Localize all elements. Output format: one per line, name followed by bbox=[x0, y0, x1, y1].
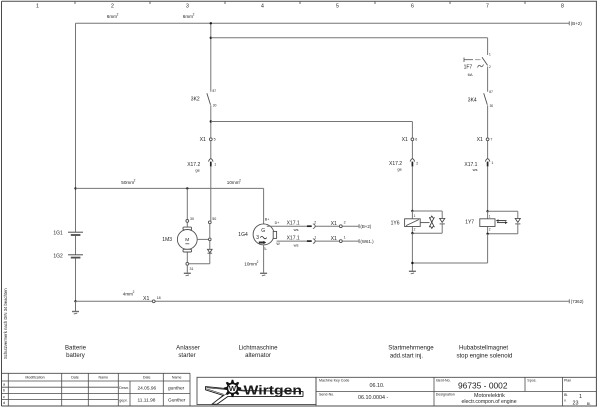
svg-text:X1: X1 bbox=[477, 137, 483, 143]
label 50mm2 bbox=[121, 178, 135, 185]
svg-text:50mm: 50mm bbox=[121, 180, 134, 185]
logo box bbox=[197, 377, 316, 404]
wire: right rail through 3K4 down to X17.1 bbox=[487, 67, 489, 212]
svg-text:2: 2 bbox=[117, 12, 119, 16]
svg-text:X17.1: X17.1 bbox=[287, 221, 300, 227]
connector X1 pin 1 bbox=[331, 235, 346, 242]
ground alternator bbox=[260, 273, 267, 276]
label 6mm2 bbox=[107, 12, 119, 19]
svg-text:X1: X1 bbox=[143, 296, 149, 302]
net label (7362) bbox=[571, 299, 584, 304]
svg-text:Startmehrmenge: Startmehrmenge bbox=[388, 345, 434, 352]
svg-text:5: 5 bbox=[336, 4, 339, 10]
svg-text:Spos.: Spos. bbox=[527, 378, 536, 382]
svg-text:alternator: alternator bbox=[245, 352, 271, 359]
svg-text:Name: Name bbox=[172, 376, 182, 380]
connector X17.1 pin 1 (W) bbox=[287, 235, 317, 247]
svg-text:2: 2 bbox=[257, 260, 259, 264]
svg-text:Wirtgen: Wirtgen bbox=[244, 382, 303, 397]
svg-text:3K2: 3K2 bbox=[191, 96, 200, 102]
svg-text:1G2: 1G2 bbox=[53, 254, 63, 260]
svg-text:2: 2 bbox=[111, 4, 114, 10]
svg-text:2: 2 bbox=[133, 290, 135, 294]
connector X1 pin 6 bbox=[402, 137, 418, 143]
svg-text:1: 1 bbox=[489, 53, 491, 57]
wire: bottom ground bus bbox=[76, 299, 570, 303]
svg-text:Date: Date bbox=[143, 376, 151, 380]
fuse 1F7 6A bbox=[464, 53, 491, 78]
wire: starter solenoid branch term 50 down to diode bbox=[189, 221, 210, 264]
svg-text:Hubabstellmagnet: Hubabstellmagnet bbox=[459, 345, 508, 352]
connector X1 pin 5 bbox=[200, 137, 216, 143]
svg-text:06.10.0004 -: 06.10.0004 - bbox=[358, 395, 388, 401]
wire: left battery vertical bbox=[75, 23, 77, 301]
svg-text:2: 2 bbox=[134, 178, 136, 182]
node battery bus junction bbox=[74, 187, 76, 189]
node battery minus junction bbox=[74, 300, 76, 302]
svg-text:ge: ge bbox=[397, 167, 402, 172]
svg-text:96735 - 0002: 96735 - 0002 bbox=[458, 380, 508, 390]
svg-text:1: 1 bbox=[491, 161, 493, 165]
svg-text:3: 3 bbox=[186, 4, 189, 10]
svg-text:18: 18 bbox=[157, 296, 161, 300]
svg-text:2: 2 bbox=[344, 220, 346, 224]
svg-text:Schutzvermerk nach DIN 34 beac: Schutzvermerk nach DIN 34 beachten bbox=[3, 288, 8, 359]
wire: mid branch to X1:6 bbox=[211, 122, 413, 212]
svg-text:W: W bbox=[229, 384, 237, 393]
svg-text:D+: D+ bbox=[275, 221, 280, 225]
net label (B+2) bbox=[360, 224, 371, 229]
svg-text:7: 7 bbox=[490, 138, 492, 142]
svg-text:1: 1 bbox=[214, 163, 216, 167]
svg-text:Batterie: Batterie bbox=[65, 345, 87, 352]
svg-text:1Y7: 1Y7 bbox=[465, 220, 474, 226]
svg-text:Date: Date bbox=[71, 376, 79, 380]
label 4mm2 bbox=[123, 290, 135, 296]
svg-text:1G4: 1G4 bbox=[238, 232, 248, 238]
svg-text:Bl.: Bl. bbox=[564, 393, 568, 397]
node motor link bbox=[209, 238, 212, 241]
svg-text:30: 30 bbox=[490, 104, 494, 108]
svg-text:1: 1 bbox=[489, 215, 491, 219]
svg-text:5: 5 bbox=[214, 138, 216, 142]
svg-text:23: 23 bbox=[573, 400, 579, 406]
svg-text:10mm: 10mm bbox=[227, 180, 240, 185]
ground starter bbox=[184, 265, 191, 276]
svg-text:Machine Key Code: Machine Key Code bbox=[319, 378, 349, 382]
svg-text:Designation: Designation bbox=[436, 393, 455, 397]
label 10mm2 bbox=[227, 178, 241, 185]
ground solenoids bbox=[409, 271, 416, 274]
wire: solenoid ground rail bbox=[412, 233, 487, 271]
svg-text:(W61.): (W61.) bbox=[360, 239, 374, 244]
svg-text:(7362): (7362) bbox=[571, 299, 584, 304]
svg-text:24.05.96: 24.05.96 bbox=[138, 385, 157, 391]
svg-text:X1: X1 bbox=[402, 137, 408, 143]
ground battery bbox=[72, 301, 79, 314]
svg-text:30: 30 bbox=[190, 217, 194, 221]
svg-text:6: 6 bbox=[411, 4, 414, 10]
svg-text:31: 31 bbox=[190, 267, 194, 271]
node solenoid ground junction bbox=[411, 262, 413, 264]
svg-text:starter: starter bbox=[178, 352, 195, 359]
solenoid 1Y6 bbox=[391, 210, 445, 235]
svg-text:1M3: 1M3 bbox=[162, 237, 172, 243]
svg-text:X1: X1 bbox=[331, 236, 337, 242]
relay contact 3K2 bbox=[191, 89, 217, 107]
svg-text:30: 30 bbox=[213, 104, 217, 108]
svg-text:1: 1 bbox=[344, 235, 346, 239]
connector terminal 50 bbox=[208, 221, 211, 224]
svg-text:Anlasser: Anlasser bbox=[176, 345, 200, 352]
connector X17.2 pin 1 (ge) bbox=[187, 159, 216, 173]
svg-text:M: M bbox=[185, 237, 189, 243]
alternator 1G4 bbox=[238, 218, 280, 252]
svg-text:Drwn.: Drwn. bbox=[119, 386, 129, 390]
connector X17.1 pin 2 (D+) bbox=[287, 220, 317, 232]
svg-text:2: 2 bbox=[193, 12, 195, 16]
svg-text:1Y6: 1Y6 bbox=[391, 220, 400, 226]
svg-text:7: 7 bbox=[486, 4, 489, 10]
battery 1G2 bbox=[68, 255, 83, 258]
svg-text:Send-No.: Send-No. bbox=[319, 393, 334, 397]
svg-text:W: W bbox=[276, 242, 280, 246]
net label (B+2) top right bbox=[571, 21, 582, 26]
svg-text:stop engine solenoid: stop engine solenoid bbox=[456, 352, 512, 359]
svg-text:3: 3 bbox=[256, 235, 259, 241]
svg-text:4: 4 bbox=[261, 4, 264, 10]
svg-text:Plan: Plan bbox=[564, 378, 571, 382]
right title blocks bbox=[316, 377, 596, 406]
svg-text:X1: X1 bbox=[331, 221, 337, 227]
svg-text:Bl.: Bl. bbox=[587, 402, 591, 406]
svg-text:11.11.98: 11.11.98 bbox=[138, 397, 156, 403]
svg-text:B+: B+ bbox=[265, 218, 270, 222]
svg-text:battery: battery bbox=[66, 352, 86, 359]
connector X1 pin 7 bbox=[477, 137, 493, 143]
connector X17.2 pin 2 (ge) bbox=[389, 159, 418, 172]
svg-text:X1: X1 bbox=[200, 137, 206, 143]
svg-text:gepr.: gepr. bbox=[119, 398, 127, 402]
node starter branch bbox=[186, 187, 188, 189]
svg-text:6: 6 bbox=[415, 138, 417, 142]
wire: alternator ground bbox=[263, 245, 265, 273]
svg-text:Modification: Modification bbox=[25, 376, 44, 380]
svg-text:50: 50 bbox=[212, 217, 216, 221]
diode starter suppression bbox=[208, 249, 213, 253]
connector X17.1 pin 1 (ws) bbox=[464, 159, 493, 172]
svg-text:2: 2 bbox=[416, 162, 418, 166]
title block bbox=[2, 373, 191, 406]
svg-text:1F7: 1F7 bbox=[464, 64, 473, 70]
svg-text:1: 1 bbox=[36, 4, 39, 10]
svg-text:(B+2): (B+2) bbox=[360, 224, 371, 229]
solenoid 1Y7 bbox=[465, 210, 520, 235]
svg-text:06.10.: 06.10. bbox=[370, 383, 385, 389]
svg-text:87: 87 bbox=[489, 90, 493, 94]
svg-text:87: 87 bbox=[213, 89, 217, 93]
svg-text:b: b bbox=[3, 389, 5, 393]
starter motor 1M3 bbox=[162, 188, 197, 270]
wire: main 50mm2 bus to starter / alternator bbox=[76, 188, 264, 224]
svg-text:Lichtmaschine: Lichtmaschine bbox=[239, 345, 279, 352]
svg-text:X17.1: X17.1 bbox=[287, 235, 300, 241]
svg-text:1: 1 bbox=[314, 235, 316, 239]
svg-text:gunther: gunther bbox=[168, 385, 185, 391]
connector X1 pin 18 on ground bus bbox=[143, 296, 161, 302]
svg-text:8: 8 bbox=[561, 4, 564, 10]
svg-text:6A: 6A bbox=[468, 72, 473, 77]
svg-text:add.start inj.: add.start inj. bbox=[390, 352, 424, 359]
svg-text:(B+2): (B+2) bbox=[571, 21, 582, 26]
wire: W line to X1:1 bbox=[277, 239, 360, 243]
svg-text:G: G bbox=[261, 228, 265, 234]
relay contact 3K4 bbox=[468, 90, 494, 108]
battery 1G1 bbox=[68, 232, 83, 235]
node mid branch tap bbox=[210, 120, 212, 122]
svg-text:10mm: 10mm bbox=[244, 261, 257, 266]
svg-text:2: 2 bbox=[414, 227, 416, 231]
svg-text:Gunther: Gunther bbox=[168, 397, 186, 403]
svg-text:Ident-No.: Ident-No. bbox=[436, 378, 451, 382]
svg-text:1: 1 bbox=[414, 214, 416, 218]
svg-text:2: 2 bbox=[489, 65, 491, 69]
svg-text:ws: ws bbox=[294, 242, 299, 247]
net label (W61.) bbox=[360, 239, 374, 244]
node fuse branch tap bbox=[210, 37, 212, 39]
svg-text:v.: v. bbox=[564, 398, 567, 402]
svg-text:c: c bbox=[3, 395, 5, 399]
label 6mm2 bbox=[183, 12, 195, 19]
wire: fuse branch horizontal bbox=[211, 38, 488, 55]
node top bus tap bbox=[210, 22, 212, 24]
wire: D+ line to X1:2 bbox=[267, 224, 359, 228]
svg-text:electr.compon.of engine: electr.compon.of engine bbox=[462, 399, 517, 405]
svg-text:2: 2 bbox=[314, 220, 316, 224]
connector X1 pin 2 bbox=[331, 220, 346, 227]
svg-text:1: 1 bbox=[579, 394, 582, 400]
wire: relay rail from top bus down to X17.2 and starter term 50 bbox=[210, 23, 212, 221]
svg-text:ws: ws bbox=[294, 227, 299, 232]
svg-text:ws: ws bbox=[473, 167, 478, 172]
Wirtgen logo bbox=[206, 380, 304, 405]
svg-text:3K4: 3K4 bbox=[468, 97, 477, 103]
wire: top supply bus B+ bbox=[76, 21, 570, 25]
svg-text:Name: Name bbox=[99, 376, 109, 380]
label 10mm2 bbox=[244, 260, 258, 266]
svg-text:1G1: 1G1 bbox=[53, 231, 63, 237]
svg-text:d: d bbox=[3, 401, 5, 405]
captions bbox=[65, 345, 512, 360]
svg-text:ge: ge bbox=[195, 168, 200, 173]
svg-text:2: 2 bbox=[489, 228, 491, 232]
svg-text:2: 2 bbox=[239, 178, 241, 182]
svg-text:Motorelektrik: Motorelektrik bbox=[474, 393, 505, 399]
